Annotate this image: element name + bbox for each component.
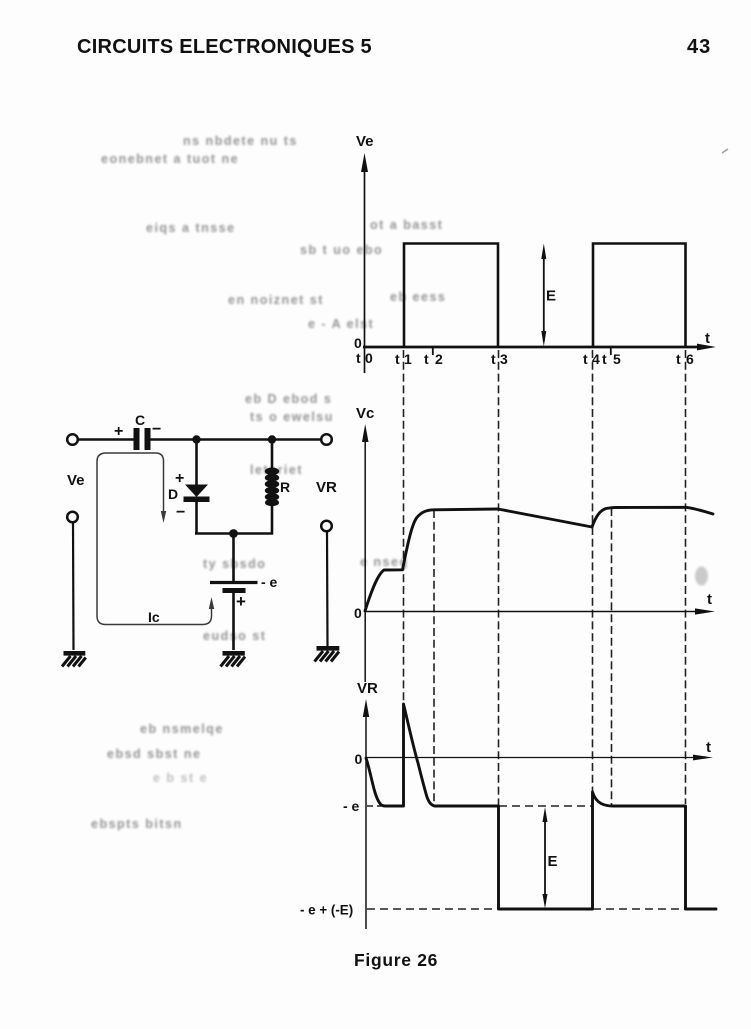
svg-text:+: + — [114, 423, 123, 440]
capacitor C — [134, 428, 140, 450]
smudge right of Vc plot — [695, 567, 708, 586]
svg-text:t: t — [583, 351, 588, 367]
wire top-left — [78, 438, 134, 440]
svg-text:Figure 26: Figure 26 — [354, 950, 438, 970]
Ve pulse 2 — [593, 244, 686, 348]
svg-text:t: t — [707, 591, 712, 608]
svg-text:t: t — [602, 351, 607, 367]
svg-text:E: E — [546, 288, 556, 305]
svg-text:6: 6 — [686, 351, 694, 367]
svg-text:eb eess: eb eess — [390, 290, 446, 304]
svg-text:Vc: Vc — [356, 405, 374, 422]
Ic current loop — [97, 453, 212, 625]
Ve pulse 1 — [404, 244, 498, 348]
VR t-axis (0 line) — [366, 757, 700, 759]
svg-text:t: t — [356, 350, 361, 366]
svg-text:eiqs a tnsse: eiqs a tnsse — [146, 221, 236, 235]
wire battery to ground — [232, 592, 235, 650]
svg-text:0: 0 — [365, 350, 373, 366]
input terminal bottom — [67, 512, 78, 523]
svg-text:1: 1 — [404, 351, 412, 367]
svg-text:ot a basst: ot a basst — [370, 218, 443, 232]
Vc y-axis — [364, 432, 366, 682]
svg-text:D: D — [168, 486, 178, 502]
svg-text:sb t uo ebo: sb t uo ebo — [300, 243, 383, 257]
Vc waveform curve — [365, 507, 713, 611]
node junction resistor — [268, 435, 276, 443]
svg-text:R: R — [280, 479, 290, 495]
Ic loop arrowhead (down) — [161, 511, 166, 523]
dashed guide t'5 — [611, 508, 613, 805]
svg-text:0: 0 — [355, 751, 363, 767]
svg-text:VR: VR — [357, 680, 378, 697]
node junction battery — [229, 529, 238, 538]
svg-text:Ve: Ve — [67, 472, 85, 489]
wire diode branch — [195, 440, 198, 486]
svg-text:−: − — [176, 504, 185, 521]
-e short level line at axis — [367, 805, 381, 807]
VR y-axis — [365, 707, 367, 929]
svg-text:VR: VR — [316, 479, 337, 496]
dashed guide t6 — [685, 350, 687, 804]
E amplitude arrow (VR) — [544, 813, 546, 903]
ground right — [315, 648, 340, 661]
resistor R (coil style) — [265, 468, 279, 507]
svg-text:Ve: Ve — [356, 133, 374, 150]
output terminal bottom — [321, 521, 332, 532]
wire top-mid — [151, 438, 322, 440]
wire below diode — [195, 502, 198, 535]
svg-text:Ic: Ic — [148, 609, 160, 625]
ground left — [62, 653, 86, 666]
bottom wire diode-resistor — [195, 532, 273, 535]
Vc t-axis — [365, 611, 700, 613]
battery -e — [210, 581, 258, 584]
svg-text:CIRCUITS ELECTRONIQUES 5: CIRCUITS ELECTRONIQUES 5 — [77, 36, 372, 58]
svg-text:2: 2 — [435, 351, 443, 367]
svg-text:t: t — [424, 351, 429, 367]
svg-text:eb nsmelqe: eb nsmelqe — [140, 722, 224, 736]
svg-text:ts o ewelsu: ts o ewelsu — [250, 410, 334, 424]
ground middle — [221, 653, 246, 666]
svg-text:e b st e: e b st e — [153, 771, 208, 785]
tiny speck top right — [722, 149, 728, 153]
ghost show-through text — [91, 134, 446, 831]
svg-text:en noiznet st: en noiznet st — [228, 293, 324, 307]
output terminal top — [321, 434, 332, 445]
svg-text:e nseq: e nseq — [360, 555, 409, 569]
svg-text:- e + (-E): - e + (-E) — [300, 903, 353, 918]
diode D — [185, 485, 208, 498]
VR waveform curve — [366, 704, 716, 909]
svg-text:5: 5 — [613, 351, 621, 367]
svg-text:C: C — [135, 412, 145, 428]
svg-text:+: + — [236, 592, 246, 611]
node junction diode — [192, 435, 200, 443]
svg-text:- e: - e — [343, 798, 360, 814]
svg-text:0: 0 — [354, 335, 362, 351]
wire VR to ground — [326, 531, 329, 646]
svg-text:+: + — [175, 470, 184, 487]
Ve t-axis — [363, 346, 703, 349]
svg-text:−: − — [152, 421, 161, 438]
svg-text:ebsd sbst ne: ebsd sbst ne — [107, 747, 201, 761]
svg-text:E: E — [548, 853, 558, 870]
svg-text:t: t — [491, 351, 496, 367]
wire Ve to ground — [72, 522, 75, 650]
svg-text:t: t — [706, 739, 711, 756]
-e+(-E) dashed level line mid — [593, 908, 685, 910]
svg-text:t: t — [705, 330, 710, 347]
wire to battery — [232, 534, 235, 582]
dashed guide t'2 — [433, 510, 435, 805]
input terminal top — [67, 434, 78, 445]
Ic loop arrowhead (up) — [209, 597, 214, 609]
svg-text:t: t — [395, 351, 400, 367]
wire resistor branch — [271, 440, 274, 470]
svg-text:- e: - e — [261, 574, 278, 590]
svg-text:43: 43 — [687, 36, 711, 58]
-e dashed level line — [499, 805, 592, 807]
E amplitude arrow (Ve) — [543, 250, 545, 341]
dashed guide t4 — [592, 350, 594, 791]
svg-text:3: 3 — [500, 351, 508, 367]
svg-text:ns nbdete nu ts: ns nbdete nu ts — [183, 134, 298, 148]
svg-text:eb D ebod s: eb D ebod s — [245, 392, 332, 406]
Ve y-axis — [364, 162, 366, 373]
svg-text:t: t — [676, 351, 681, 367]
dashed guide t1 — [403, 350, 405, 701]
dashed guide t3 — [498, 350, 500, 805]
svg-text:eonebnet a tuot ne: eonebnet a tuot ne — [101, 152, 239, 166]
wire below resistor — [271, 503, 274, 535]
-e+(-E) dashed level line left — [367, 908, 498, 910]
svg-text:0: 0 — [354, 605, 362, 621]
svg-text:ebspts bitsn: ebspts bitsn — [91, 817, 183, 831]
